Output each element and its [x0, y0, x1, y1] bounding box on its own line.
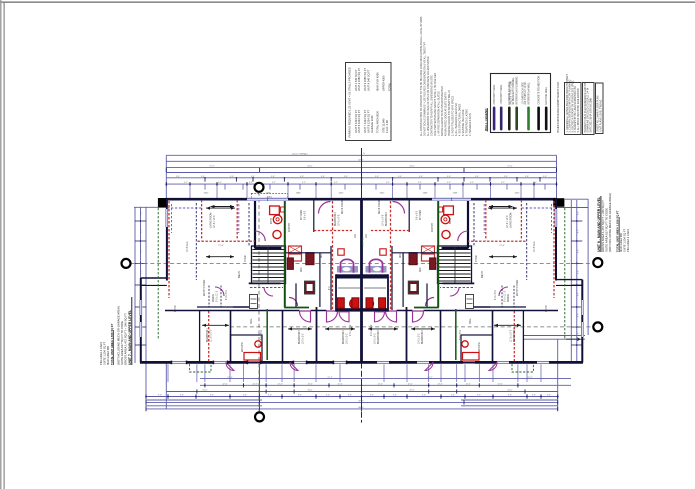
core sink counter left: [337, 266, 358, 273]
svg-text:9'-6": 9'-6": [393, 395, 397, 397]
svg-text:5'-2": 5'-2": [302, 182, 306, 184]
svg-text:LIN: LIN: [366, 234, 368, 238]
core door frame left: [341, 259, 354, 272]
svg-text:9'-6": 9'-6": [321, 176, 325, 178]
left blue dashed line: [195, 203, 197, 280]
left wing step wall b: [141, 284, 167, 286]
svg-text:6'-2 x 8'-0: 6'-2 x 8'-0: [226, 289, 228, 300]
svg-text:10-0 x 9-2: 10-0 x 9-2: [303, 333, 305, 344]
left bedroom wall v1: [199, 310, 201, 363]
svg-text:MAIN AREA 980: MAIN AREA 980: [106, 345, 110, 365]
right room arrow 2: [489, 256, 517, 258]
svg-text:9'-6": 9'-6": [422, 395, 426, 397]
left wing window 1: [139, 300, 142, 315]
right entry door arc: [499, 287, 508, 296]
left wing window 1 glazing: [139, 300, 141, 315]
left unit kitchen arc: [255, 231, 265, 241]
left red dashed wall line c: [236, 200, 238, 240]
bottom dim right extension: [557, 339, 559, 411]
svg-text:DECK OVER: DECK OVER: [342, 200, 344, 214]
svg-text:DINING: DINING: [213, 294, 215, 302]
grid bubble top: [255, 183, 264, 192]
svg-text:ISSUED FOR BUILDING PERMIT MAR: ISSUED FOR BUILDING PERMIT MARCH 4 2021: [557, 81, 560, 133]
svg-text:SUITE AREA 917 SQ FT TO CODE: SUITE AREA 917 SQ FT TO CODE: [120, 321, 124, 365]
svg-text:9'-6": 9'-6": [201, 176, 205, 178]
right unit hall wall: [392, 252, 437, 254]
svg-text:1/2 GWB EACH SIDE: 1/2 GWB EACH SIDE: [521, 82, 524, 105]
svg-text:9'-6": 9'-6": [547, 395, 551, 397]
top wall window 1 glazing: [247, 197, 288, 199]
svg-text:GARAGE 2140: GARAGE 2140: [370, 115, 374, 133]
svg-text:8'-6": 8'-6": [577, 313, 579, 317]
right wing step wall a: [556, 279, 582, 281]
right bedroom2 wall: [391, 246, 393, 310]
svg-text:12'-6": 12'-6": [337, 384, 342, 386]
top dimension line 5: [166, 177, 556, 179]
right vertical dim line 2: [576, 200, 578, 363]
right room arrow 3: [494, 324, 521, 326]
svg-text:9'-0 x 10'-2: 9'-0 x 10'-2: [371, 324, 373, 336]
left vertical dim line 1: [134, 207, 136, 363]
left unit title underline: [131, 297, 133, 365]
centerline upper extension: [361, 148, 363, 199]
sheet top edge line: [0, 1, 695, 3]
svg-text:12'-6": 12'-6": [497, 384, 502, 386]
right red dashed wall line a: [553, 201, 555, 298]
right room arrow 4: [411, 328, 435, 330]
svg-text:WIC: WIC: [400, 253, 402, 258]
top dimension line 1: [166, 154, 556, 156]
right wing window 1: [581, 300, 584, 315]
left unit bath wc: [273, 230, 281, 238]
svg-text:BEDROOM 2: BEDROOM 2: [386, 211, 388, 226]
right patio door arc 2: [425, 363, 433, 371]
left entry closet line 2: [220, 286, 222, 308]
svg-text:8'-6": 8'-6": [141, 249, 143, 253]
core upper wall: [336, 274, 388, 278]
svg-text:KITCHEN: KITCHEN: [301, 210, 303, 220]
right blue dashed line: [526, 203, 528, 280]
top wall corner block left: [158, 198, 168, 208]
svg-text:9'-0 x 11'-2: 9'-0 x 11'-2: [217, 290, 219, 302]
svg-text:5'-2": 5'-2": [533, 182, 537, 184]
right wall extension line: [565, 198, 588, 200]
bottom dimension line 3: [166, 391, 557, 393]
right unit bedroom wall top: [408, 199, 410, 232]
right green dashed wall line: [564, 208, 566, 340]
svg-text:BEDROOM 3: BEDROOM 3: [299, 329, 301, 344]
bottom dimension line 5b: [461, 399, 558, 401]
legend bar 1: [493, 107, 496, 131]
svg-text:9'-6": 9'-6": [344, 176, 348, 178]
left mid bath fixture 2: [306, 253, 314, 265]
svg-text:8'-6": 8'-6": [577, 270, 579, 274]
svg-text:UNIT 5 1234 SQ FT: UNIT 5 1234 SQ FT: [354, 110, 358, 133]
left side wall window: [165, 209, 168, 227]
svg-text:BATH: BATH: [449, 218, 452, 224]
svg-text:12'-4 x 13'-6: 12'-4 x 13'-6: [507, 215, 509, 228]
svg-text:5'-2": 5'-2": [386, 182, 390, 184]
svg-text:1 HR PARTY WALL: 1 HR PARTY WALL: [500, 84, 503, 105]
left patio door arc 2: [290, 363, 298, 371]
svg-text:STAIR: STAIR: [244, 255, 247, 262]
right wing window 2: [581, 322, 584, 337]
svg-text:STAIR: STAIR: [475, 255, 478, 262]
top dim ticks row 2: [204, 178, 206, 182]
svg-text:UNIT 3 1080 SQ FT: UNIT 3 1080 SQ FT: [363, 68, 367, 91]
left wing window 2 glazing: [139, 322, 141, 337]
grid bubble right lower: [593, 322, 602, 331]
right room arrow 1: [488, 207, 517, 209]
svg-text:8'-6": 8'-6": [141, 270, 143, 274]
right overhang dash v1: [551, 204, 553, 233]
svg-text:9'-0 x 11'-2: 9'-0 x 11'-2: [505, 290, 507, 302]
left mid bath toilet: [350, 299, 357, 308]
svg-text:27'-2": 27'-2": [507, 166, 512, 168]
right entry wall: [490, 306, 526, 308]
right exterior wall: [555, 199, 557, 281]
svg-text:PANTRY: PANTRY: [431, 222, 434, 232]
svg-text:INTERIOR 2x4 WALL: INTERIOR 2x4 WALL: [527, 82, 530, 105]
top dimension line 2: [166, 160, 556, 162]
svg-text:24'-0": 24'-0": [307, 166, 312, 168]
title box 1: [565, 83, 582, 135]
left unit bath tub: [270, 206, 280, 215]
svg-text:11'-2 x 10'-0: 11'-2 x 10'-0: [211, 329, 213, 342]
left dim ticks: [135, 220, 140, 222]
svg-text:PATIO: PATIO: [174, 305, 177, 312]
bottom exterior wall: [140, 361, 583, 364]
svg-text:KITCHEN: KITCHEN: [420, 210, 422, 220]
left wing green wall: [266, 309, 268, 360]
svg-text:TOTAL AREA 8520: TOTAL AREA 8520: [376, 110, 380, 133]
svg-text:W/D: W/D: [301, 267, 303, 272]
party wall centerline: [360, 199, 363, 363]
svg-text:AND 5/8 TYPE X GWB: AND 5/8 TYPE X GWB: [510, 80, 513, 104]
right unit stair treads: [439, 249, 471, 251]
right bedroom wall v1: [522, 310, 524, 363]
core toilet 1: [337, 298, 344, 308]
svg-text:8'-6": 8'-6": [577, 292, 579, 296]
left wing bath tub: [244, 353, 261, 361]
grid line A lower solid: [258, 364, 260, 412]
svg-text:9'-6": 9'-6": [451, 395, 455, 397]
svg-text:27'-2": 27'-2": [527, 377, 532, 379]
svg-text:5'-2": 5'-2": [418, 182, 422, 184]
legend bar 2: [500, 107, 503, 131]
svg-text:9'-6": 9'-6": [243, 395, 247, 397]
left blue dashed line 2: [248, 203, 250, 247]
legend bar 7: [545, 107, 548, 131]
centerline lower extension: [361, 363, 363, 423]
right unit green wall horizontal: [414, 307, 439, 309]
grid line horizontal B: [131, 262, 594, 264]
core door frame right: [370, 259, 383, 272]
right wing exterior wall: [581, 280, 583, 363]
right stair red dash: [440, 287, 473, 289]
left bedroom hall wall: [165, 310, 361, 312]
svg-text:BEDROOM 3: BEDROOM 3: [422, 329, 424, 344]
svg-text:DECK OVER: DECK OVER: [379, 200, 381, 214]
svg-text:9-6 x 8-2: 9-6 x 8-2: [417, 210, 419, 220]
svg-text:5'-2": 5'-2": [334, 182, 338, 184]
title box 3: [596, 83, 604, 134]
svg-text:LIN: LIN: [355, 234, 357, 238]
svg-text:ENSUITE: ENSUITE: [242, 342, 244, 352]
svg-text:ENTRY FOYER: ENTRY FOYER: [204, 279, 206, 296]
svg-text:MAIN FLR 4260: MAIN FLR 4260: [376, 72, 380, 91]
left wing window 2: [139, 322, 142, 337]
right bedroom wall v3: [440, 310, 442, 363]
svg-text:GROSS AREA 1,472 SQ FT + 240 S: GROSS AREA 1,472 SQ FT + 240 SQ FT: [124, 313, 128, 365]
svg-text:HALL: HALL: [250, 318, 253, 324]
right bedroom door arc 1: [413, 311, 424, 322]
right unit hall wall 2: [426, 283, 428, 307]
core left wall: [335, 274, 337, 311]
left vertical dim line 3: [145, 207, 147, 363]
svg-text:9'-6": 9'-6": [419, 176, 423, 178]
right red dashed wall line e: [390, 201, 392, 310]
right overhang dash v2: [483, 204, 485, 233]
wall legend title underline: [487, 108, 489, 132]
svg-text:21'-4": 21'-4": [218, 245, 224, 247]
svg-text:PATIO: PATIO: [545, 305, 548, 312]
top dimension line 6: [166, 183, 556, 185]
right unit laundry box 1: [422, 246, 435, 253]
svg-text:8'-6": 8'-6": [577, 229, 579, 233]
top wall corner block right: [553, 198, 564, 207]
svg-text:9'-6": 9'-6": [251, 176, 255, 178]
svg-text:12'-6": 12'-6": [222, 384, 227, 386]
right mid bath fixture 3: [408, 281, 418, 294]
svg-text:BEDROOM 2: BEDROOM 2: [378, 329, 380, 344]
left unit bath sink inner: [276, 218, 279, 221]
svg-text:9'-6": 9'-6": [348, 395, 352, 397]
svg-text:9'-6": 9'-6": [298, 395, 302, 397]
grid bubble left: [122, 259, 131, 268]
right room arrow 6: [211, 206, 235, 208]
svg-text:BEDROOM 2: BEDROOM 2: [343, 329, 345, 344]
right dim ticks: [571, 220, 576, 222]
top wall window 2: [432, 198, 471, 201]
right blue dashed line 2: [473, 203, 475, 247]
svg-text:11'-2 x 10'-0: 11'-2 x 10'-0: [511, 329, 513, 342]
svg-text:PKG AREA 2 CARS: PKG AREA 2 CARS: [626, 229, 630, 252]
svg-text:9'-6": 9'-6": [176, 176, 180, 178]
svg-text:24'-0": 24'-0": [307, 390, 312, 392]
right wing dim line 1: [524, 335, 586, 337]
left patio door arc: [226, 363, 234, 371]
svg-text:BEDROOM 1: BEDROOM 1: [514, 327, 516, 342]
left unit stair bottom wall: [249, 282, 281, 284]
svg-text:EXISTING WALL: EXISTING WALL: [545, 86, 548, 104]
left red dashed wall line b: [201, 200, 203, 240]
bottom dimension line 4: [146, 396, 558, 398]
right bedroom hall wall: [362, 310, 558, 312]
top witness lines: [189, 187, 191, 199]
svg-text:12'-6": 12'-6": [307, 384, 312, 386]
svg-text:5'-6 x 8'-9: 5'-6 x 8'-9: [460, 329, 462, 340]
left green dashed wall line: [157, 208, 159, 340]
right stair door arc: [450, 287, 459, 296]
bottom dimension line 2: [200, 384, 571, 386]
svg-text:10'-8 CLG: 10'-8 CLG: [187, 241, 189, 252]
left red dashed wall line d: [198, 240, 256, 242]
svg-text:24'-0": 24'-0": [409, 166, 414, 168]
left bedroom wall v3: [282, 310, 284, 363]
legend bar 4: [515, 107, 518, 131]
right room arrow 5: [368, 328, 398, 330]
svg-text:9'-6": 9'-6": [210, 395, 214, 397]
left blue dashed line 3: [167, 207, 202, 209]
legend bar 3: [508, 107, 511, 131]
right patio dashed outline: [512, 364, 533, 373]
right mid bath fixture 2: [409, 253, 417, 265]
svg-text:9'-6": 9'-6": [508, 395, 512, 397]
svg-text:5'-2": 5'-2": [470, 182, 474, 184]
svg-text:UNIT 8 1234 SQ FT: UNIT 8 1234 SQ FT: [367, 110, 371, 133]
svg-text:9-6 x 8-2: 9-6 x 8-2: [305, 210, 307, 220]
right mid bath toilet: [367, 299, 374, 308]
svg-text:24'-0": 24'-0": [409, 390, 414, 392]
right unit total underline: [618, 217, 620, 252]
core toilet 4: [379, 298, 386, 308]
bottom dim left wall extension: [165, 363, 167, 409]
left red dashed wall line a: [168, 201, 170, 298]
right bedroom red dashed line: [513, 311, 515, 362]
grid label box: [251, 193, 287, 198]
top wall window 2 glazing: [432, 197, 471, 199]
right patio door arc: [489, 363, 497, 371]
bottom dim ticks row: [145, 394, 147, 398]
right wing bath wc: [462, 341, 468, 347]
core hall arc right: [375, 312, 385, 322]
left unit total underline: [113, 330, 115, 365]
bottom dimension line 7b: [461, 405, 558, 407]
svg-text:12'-6": 12'-6": [407, 384, 412, 386]
left unit laundry cross: [289, 246, 302, 253]
bottom dimension line 6: [146, 401, 558, 403]
svg-text:10-0 x 9-2: 10-0 x 9-2: [347, 333, 349, 344]
svg-text:12'-6": 12'-6": [465, 384, 470, 386]
left unit bath sink: [273, 215, 282, 224]
core red box right: [380, 249, 386, 255]
right vertical dim line 3: [587, 199, 589, 335]
svg-text:UNIT 4 540 SQ FT: UNIT 4 540 SQ FT: [367, 69, 371, 91]
svg-text:9'-6": 9'-6": [230, 176, 234, 178]
right wing bath tub: [463, 353, 480, 361]
svg-text:9'-6": 9'-6": [300, 176, 304, 178]
left stair red dash: [250, 287, 283, 289]
svg-text:UNIT 2 1080 SQ FT: UNIT 2 1080 SQ FT: [357, 68, 361, 91]
left vertical dim line 2: [140, 207, 142, 363]
svg-text:TOTAL UNIT AREA 1,556 SQ FT: TOTAL UNIT AREA 1,556 SQ FT: [110, 323, 114, 365]
svg-text:BATH: BATH: [270, 218, 273, 224]
left wing bath wall: [231, 335, 263, 363]
left bottom window jambs: [171, 361, 173, 365]
left entry closet line 1: [208, 286, 210, 308]
core toilet 2: [352, 298, 359, 308]
core sink bowl right: [373, 267, 381, 271]
left bedroom door arc 2: [327, 311, 338, 322]
right wing window 1 glazing: [580, 300, 582, 315]
bottom dimension line 5a: [146, 399, 262, 401]
svg-text:2 HR FIRE: 2 HR FIRE: [363, 236, 365, 247]
left unit green wall horizontal: [284, 307, 309, 309]
left room arrow 5: [325, 328, 355, 330]
left unit bedroom wall top: [313, 199, 315, 232]
left overhang dash v2: [238, 204, 240, 233]
left room arrow 1: [206, 207, 235, 209]
svg-text:HALL: HALL: [469, 318, 472, 324]
svg-text:9'-6": 9'-6": [447, 176, 451, 178]
right mid bath fixture 1: [430, 258, 436, 269]
svg-text:10'-0 x 9'-8: 10'-0 x 9'-8: [339, 214, 341, 226]
svg-text:5. ALL WORK PER BCBC 2018 EDIT: 5. ALL WORK PER BCBC 2018 EDITION: [577, 88, 580, 132]
svg-text:24'-0": 24'-0": [507, 390, 512, 392]
left unit hall wall 2: [295, 283, 297, 307]
sheet left inner edge line: [3, 2, 5, 489]
svg-text:9'-6": 9'-6": [398, 176, 402, 178]
right entry closet line 1: [513, 286, 515, 308]
svg-text:12'-4 x 13'-6: 12'-4 x 13'-6: [214, 215, 216, 228]
bottom dimension line 8: [146, 408, 558, 410]
svg-text:164'-0" OVERALL: 164'-0" OVERALL: [292, 152, 309, 155]
svg-text:INTERIOR 2x6 PLUMBING: INTERIOR 2x6 PLUMBING: [517, 76, 519, 104]
svg-text:5'-2": 5'-2": [272, 182, 276, 184]
svg-text:9'-6": 9'-6": [477, 395, 481, 397]
svg-text:12'-6": 12'-6": [437, 384, 442, 386]
right side wall window glazing: [554, 209, 556, 227]
svg-text:TOTAL: TOTAL: [388, 82, 392, 91]
svg-text:PARKING REQUIRED 1.25 / UNIT =: PARKING REQUIRED 1.25 / UNIT = 10 STALLS…: [347, 67, 351, 137]
svg-text:5'-6 x 8'-9: 5'-6 x 8'-9: [261, 329, 263, 340]
svg-text:8'-6": 8'-6": [577, 332, 579, 336]
core mid shelf: [338, 287, 360, 289]
left wing bath wc: [255, 341, 261, 347]
svg-text:UNIT 7 - MAIN AND UPPER LEVEL: UNIT 7 - MAIN AND UPPER LEVEL: [128, 310, 132, 365]
svg-text:9'-6": 9'-6": [326, 395, 330, 397]
right wing dim line 2: [524, 338, 586, 340]
left mid bath fixture 3 inner: [307, 284, 313, 291]
svg-text:5'-2": 5'-2": [184, 182, 188, 184]
svg-text:9'-6": 9'-6": [375, 176, 379, 178]
svg-text:9'-6": 9'-6": [532, 395, 536, 397]
svg-text:UNIT 6 1234 SQ FT: UNIT 6 1234 SQ FT: [357, 110, 361, 133]
right unit bath sink: [441, 215, 450, 224]
svg-text:7. HANDRAILS 34 IN: 7. HANDRAILS 34 IN: [469, 113, 472, 136]
core right wall: [387, 274, 389, 311]
svg-text:8'-6": 8'-6": [577, 211, 579, 215]
left bedroom wall v4: [316, 307, 318, 363]
top exterior wall: [166, 198, 556, 201]
right balcony door arc: [393, 202, 405, 214]
svg-text:8'-6": 8'-6": [141, 211, 143, 215]
right blue dashed line 3: [521, 207, 556, 209]
grid line horizontal C: [230, 326, 594, 328]
svg-text:UPPER 4260: UPPER 4260: [381, 75, 385, 91]
svg-text:5'-2": 5'-2": [218, 182, 222, 184]
svg-text:10'-8 CLG: 10'-8 CLG: [534, 241, 536, 252]
svg-text:5'-2": 5'-2": [501, 182, 505, 184]
svg-text:10-0 x 9-2: 10-0 x 9-2: [375, 333, 377, 344]
right unit stair bottom wall: [442, 282, 474, 284]
core sink counter right: [366, 266, 387, 273]
top dim right extension: [556, 155, 558, 199]
bottom wall windows: [172, 361, 186, 364]
right side wall window: [555, 209, 558, 227]
left wing step wall a: [141, 277, 167, 279]
